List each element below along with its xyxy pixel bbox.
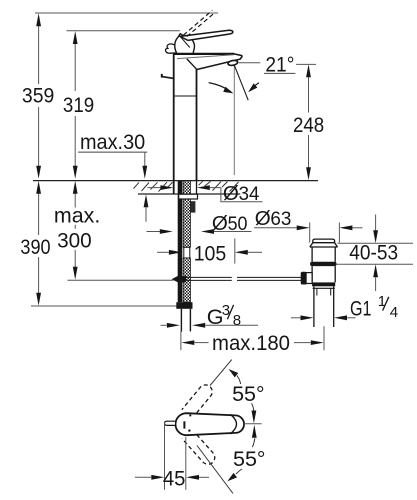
21 deg right arc [251, 83, 260, 90]
threaded shank upper [183, 181, 190, 248]
svg-text:248: 248 [293, 112, 324, 137]
svg-text:105: 105 [194, 240, 227, 265]
svg-text:34: 34 [239, 183, 260, 205]
dimension 45 [164, 422, 166, 490]
svg-text:max.: max. [54, 203, 100, 228]
spout inner slope [187, 59, 197, 70]
svg-text:max.30: max.30 [80, 129, 145, 154]
svg-text:4: 4 [390, 304, 398, 321]
spout top inner line [177, 55, 234, 59]
faucet body column [173, 54, 175, 194]
svg-text:Ø: Ø [212, 212, 228, 235]
drain neck [312, 247, 335, 262]
vertical extension from spout tip [233, 66, 235, 175]
handle bar detail [183, 421, 185, 428]
svg-text:55°: 55° [233, 446, 266, 471]
hose lines G3/8 [180, 309, 182, 332]
dimension dia 34 [148, 187, 161, 189]
smooth shank middle [184, 247, 190, 258]
dimension dia 50 [147, 231, 161, 233]
bottom view dashed lever position up [182, 385, 212, 418]
svg-text:50: 50 [228, 213, 248, 235]
threaded shank lower [183, 258, 190, 302]
handle dots [188, 429, 190, 431]
reference line 359 top [35, 12, 218, 14]
svg-text:300: 300 [57, 227, 92, 252]
reference line 319 top [67, 30, 180, 32]
spout nose [197, 54, 242, 70]
21 deg left arc [209, 83, 231, 92]
rod gap at extension line crossing [232, 276, 237, 281]
deck top line [33, 180, 318, 182]
svg-text:390: 390 [20, 234, 50, 259]
drain side port [306, 273, 312, 284]
washer below deck [179, 194, 198, 199]
bottom view dashed lever position down [182, 430, 215, 465]
handle knob top view [165, 421, 176, 425]
slant stream line [234, 65, 248, 100]
drain body [312, 266, 335, 282]
drain rod knob [301, 272, 307, 285]
svg-text:21°: 21° [265, 52, 294, 77]
svg-text:63: 63 [270, 208, 291, 230]
dimension max.180 [180, 331, 182, 350]
svg-text:8: 8 [233, 312, 241, 329]
svg-text:359: 359 [22, 82, 54, 107]
dimension 248 [308, 77, 310, 168]
dimension max.300 [74, 193, 76, 268]
lever knob [175, 34, 195, 54]
deck hatching [134, 181, 239, 191]
svg-text:G1: G1 [350, 295, 372, 320]
drain cap [313, 239, 335, 243]
dimension 359 [38, 25, 40, 169]
svg-text:1: 1 [378, 293, 386, 310]
hole edge right below deck [196, 181, 198, 194]
dimension 105 [157, 251, 169, 253]
linkage rod [186, 276, 301, 278]
bottom view handle [176, 413, 245, 435]
pull rod below deck [178, 181, 183, 302]
centerline right [244, 423, 262, 425]
drain flange [310, 243, 338, 247]
pop-up rod connector [172, 276, 179, 283]
lever blade [180, 30, 233, 40]
55 deg diagonal upper [210, 360, 232, 386]
svg-text:319: 319 [63, 92, 94, 117]
svg-text:40-53: 40-53 [349, 240, 398, 265]
hose nut [176, 302, 192, 309]
aerator [228, 60, 239, 66]
drain gasket [310, 262, 336, 266]
lever back hook [165, 44, 175, 53]
side outlet block [190, 201, 195, 212]
reference line 390 bottom [31, 305, 188, 307]
handle inner ring [230, 414, 236, 434]
55 deg diagonal lower [197, 446, 233, 494]
tailpipe [313, 286, 315, 327]
dimension 40-53 [338, 242, 414, 244]
svg-text:Ø: Ø [223, 182, 239, 205]
dimension 390 [38, 193, 40, 294]
svg-text:55°: 55° [232, 381, 265, 406]
deck bottom line [138, 193, 240, 195]
reference line max.300 bottom [68, 279, 174, 281]
svg-text:max.180: max.180 [212, 330, 290, 355]
lever raised dashed [183, 10, 212, 35]
pull rod knob on body [161, 74, 163, 78]
drain bottom band [312, 282, 335, 286]
dimension 319 [74, 43, 76, 169]
svg-text:Ø: Ø [255, 207, 271, 230]
tailpipe center stub [323, 326, 325, 350]
svg-text:45: 45 [163, 466, 186, 491]
